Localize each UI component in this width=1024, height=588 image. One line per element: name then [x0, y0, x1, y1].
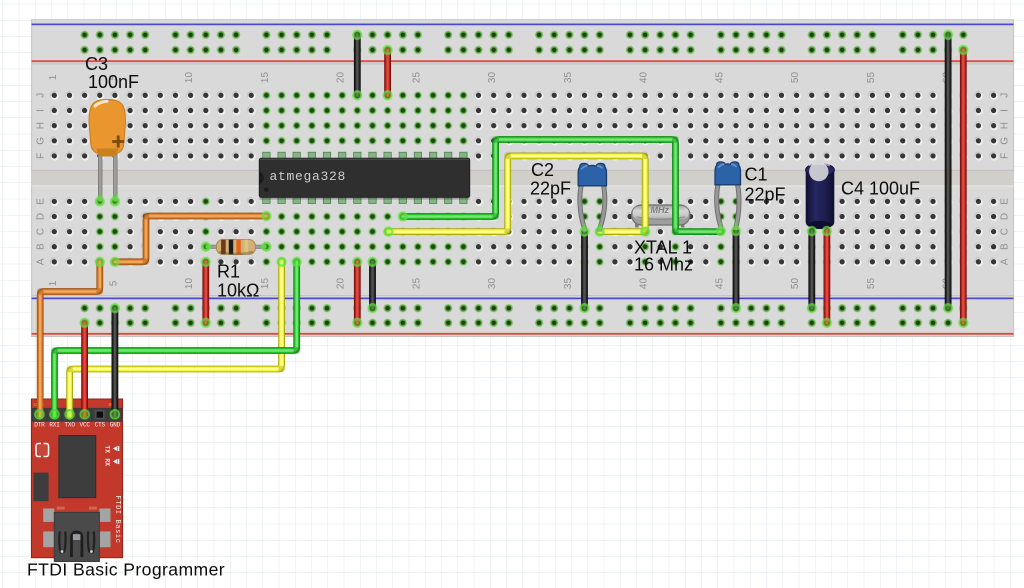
svg-text:50: 50: [790, 278, 801, 290]
svg-text:TX: TX: [104, 446, 111, 454]
svg-text:45: 45: [714, 72, 725, 84]
svg-text:VCC: VCC: [80, 422, 91, 429]
breadboard: [32, 20, 1014, 337]
svg-text:MHz: MHz: [651, 205, 670, 215]
wire green wire col24 rowD to C1 left leg: [403, 140, 721, 232]
svg-text:R1: R1: [217, 262, 240, 282]
svg-text:20: 20: [336, 72, 347, 84]
svg-text:25: 25: [411, 278, 422, 290]
svg-text:FTDI Basic Programmer: FTDI Basic Programmer: [27, 560, 225, 580]
FTDI pin labels: [34, 422, 120, 429]
label XTAL1: [634, 238, 693, 275]
svg-text:FTDI Basic: FTDI Basic: [113, 496, 121, 544]
wire red lead C4 col52 to bottom rail: [824, 231, 831, 323]
wire black wire bottom rail col5 to FTDI GND: [112, 308, 119, 416]
svg-text:C1: C1: [745, 165, 768, 185]
wire yellow wire col16 rowA to FTDI TXO: [70, 262, 282, 417]
wire red jumper right rail-to-rail col61: [960, 50, 967, 323]
wire red jumper col21 rowA to bottom rail: [354, 262, 361, 323]
column number labels: [48, 72, 953, 290]
svg-text:22pF: 22pF: [745, 185, 786, 205]
bottom power rail blue line: [32, 295, 1014, 297]
wire black lead C4 col51 to bottom rail: [808, 231, 815, 308]
svg-text:40: 40: [639, 72, 650, 84]
svg-text:I: I: [36, 109, 47, 112]
svg-text:10kΩ: 10kΩ: [217, 281, 259, 301]
IC atmega328: [259, 152, 469, 203]
svg-text:10: 10: [184, 278, 195, 290]
crystal XTAL1 16MHz: [632, 205, 691, 228]
svg-text:55: 55: [866, 72, 877, 84]
wire black jumper top rail to row J col21: [354, 35, 361, 96]
label R1 10k: [217, 262, 259, 301]
breadboard main grid holes: [50, 91, 998, 267]
svg-text:C3: C3: [85, 54, 108, 74]
capacitor C2 22pF: [578, 163, 606, 231]
svg-text:35: 35: [563, 278, 574, 290]
svg-text:40: 40: [639, 278, 650, 290]
svg-text:B: B: [1000, 243, 1011, 250]
svg-text:TXO: TXO: [64, 422, 75, 429]
wire orange wire col4 rowA to FTDI DTR: [40, 262, 100, 417]
svg-text:30: 30: [487, 72, 498, 84]
svg-text:C2: C2: [531, 160, 554, 180]
svg-text:A: A: [1000, 258, 1011, 265]
svg-text:H: H: [36, 122, 47, 129]
svg-text:DTR: DTR: [34, 422, 45, 429]
svg-text:30: 30: [487, 278, 498, 290]
svg-text:A: A: [36, 258, 47, 265]
svg-text:10: 10: [184, 72, 195, 84]
wire black jumper right rail-to-rail col60: [945, 35, 952, 308]
wire green wire col17 rowA to FTDI RXI: [55, 262, 297, 417]
label C3 100nF: [85, 54, 139, 92]
svg-text:22pF: 22pF: [530, 179, 571, 199]
svg-text:H: H: [1000, 122, 1011, 129]
svg-text:20: 20: [336, 278, 347, 290]
row letter labels: [36, 93, 1011, 265]
svg-text:100nF: 100nF: [88, 72, 139, 92]
bottom power rail red line: [32, 333, 1014, 335]
svg-text:1: 1: [48, 280, 59, 286]
svg-text:45: 45: [714, 278, 725, 290]
svg-text:RX: RX: [104, 459, 111, 467]
svg-text:15: 15: [260, 278, 271, 290]
FTDI components: [34, 436, 122, 544]
resistor R1 10k: [206, 240, 267, 255]
capacitor C1 22pF: [715, 162, 741, 230]
svg-text:F: F: [1000, 153, 1011, 159]
svg-text:C4 100uF: C4 100uF: [841, 179, 920, 199]
svg-text:55: 55: [866, 278, 877, 290]
svg-text:CTS: CTS: [95, 422, 106, 429]
svg-text:35: 35: [563, 72, 574, 84]
wire red jumper col11 rowA to bottom rail: [202, 262, 209, 323]
top power rail blue line: [32, 23, 1014, 25]
wire yellow wire col23 rowC to C2 right leg: [389, 156, 646, 232]
svg-text:I: I: [1000, 109, 1011, 112]
breadboard power rail holes: [80, 31, 967, 328]
top power rail red line: [32, 60, 1014, 62]
wire red wire bottom rail col3 to FTDI VCC: [81, 323, 88, 417]
svg-text:5: 5: [108, 280, 119, 286]
capacitor C3 100nF: [89, 100, 126, 202]
svg-text:RXI: RXI: [49, 422, 60, 429]
svg-text:D: D: [1000, 213, 1011, 220]
svg-text:15: 15: [260, 72, 271, 84]
connection glow markers: [79, 29, 968, 328]
svg-text:D: D: [36, 213, 47, 220]
wire black wire C1 right leg col46 to bottom rail: [733, 231, 740, 309]
svg-text:16 Mhz: 16 Mhz: [634, 255, 693, 275]
FTDI USB connector: [43, 507, 110, 562]
FTDI Basic Programmer board: [31, 399, 122, 558]
svg-text:J: J: [36, 93, 47, 98]
svg-text:atmega328: atmega328: [270, 169, 347, 184]
wire red jumper top rail to row J col23: [384, 50, 391, 95]
wire black wire C2 left leg col36 to bottom rail: [581, 232, 588, 309]
svg-text:1: 1: [48, 74, 59, 80]
svg-text:E: E: [1000, 198, 1011, 205]
svg-text:25: 25: [411, 72, 422, 84]
svg-text:F: F: [36, 153, 47, 159]
svg-text:E: E: [36, 198, 47, 205]
FTDI header pins: [33, 409, 122, 421]
label C1 22pF: [745, 165, 786, 205]
capacitor C4 100uF: [806, 162, 835, 229]
svg-text:GND: GND: [110, 422, 121, 429]
svg-text:G: G: [1000, 137, 1011, 145]
svg-text:G: G: [36, 137, 47, 145]
wire orange wire col5 rowA to col15 rowD: [115, 216, 267, 262]
svg-text:C: C: [1000, 228, 1011, 235]
svg-text:50: 50: [790, 72, 801, 84]
svg-text:C: C: [36, 228, 47, 235]
label C2 22pF: [530, 160, 571, 199]
FTDI pad connection glows: [34, 409, 120, 420]
svg-text:B: B: [36, 243, 47, 250]
wire black jumper col22 rowA to bottom rail: [369, 262, 376, 308]
svg-text:J: J: [1000, 93, 1011, 98]
